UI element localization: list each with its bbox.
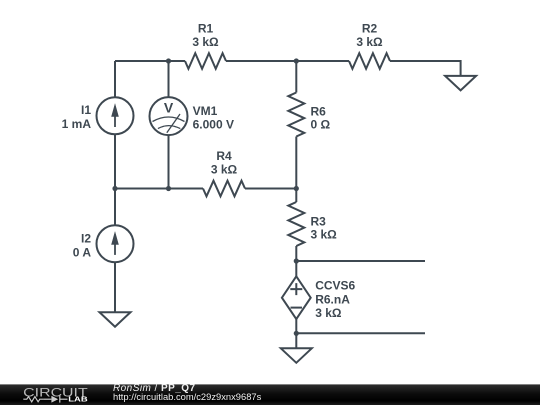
- svg-text:3 kΩ: 3 kΩ: [315, 306, 342, 320]
- svg-text:I2: I2: [81, 231, 91, 245]
- svg-text:I1: I1: [81, 103, 91, 117]
- svg-text:0 Ω: 0 Ω: [311, 118, 331, 132]
- svg-text:6.000 V: 6.000 V: [193, 117, 234, 131]
- svg-text:3 kΩ: 3 kΩ: [192, 35, 219, 49]
- svg-text:0 A: 0 A: [73, 245, 92, 259]
- svg-text:R3: R3: [311, 214, 327, 228]
- svg-text:R6.nA: R6.nA: [315, 293, 350, 307]
- svg-text:1 mA: 1 mA: [62, 117, 92, 131]
- svg-text:3 kΩ: 3 kΩ: [211, 163, 238, 177]
- svg-text:VM1: VM1: [193, 104, 218, 118]
- svg-text:R6: R6: [311, 104, 327, 118]
- svg-text:LAB: LAB: [68, 397, 87, 404]
- svg-text:http://circuitlab.com/c29z9xnx: http://circuitlab.com/c29z9xnx9687s: [113, 392, 262, 402]
- svg-text:R1: R1: [198, 21, 214, 35]
- svg-text:V: V: [164, 99, 174, 115]
- svg-text:CCVS6: CCVS6: [315, 279, 355, 293]
- svg-text:R2: R2: [362, 21, 378, 35]
- svg-text:3 kΩ: 3 kΩ: [311, 228, 338, 242]
- svg-text:3 kΩ: 3 kΩ: [356, 35, 383, 49]
- svg-text:R4: R4: [216, 149, 232, 163]
